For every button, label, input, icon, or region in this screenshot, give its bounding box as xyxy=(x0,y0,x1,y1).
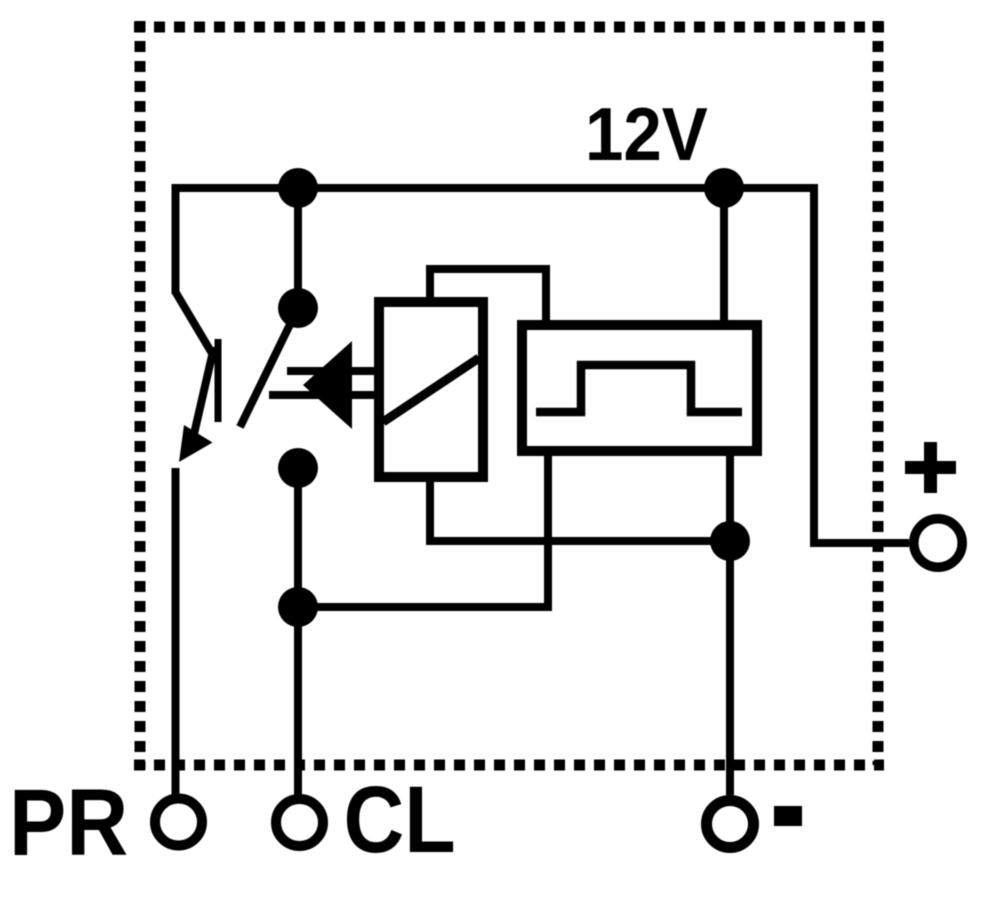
svg-text:PR: PR xyxy=(9,770,128,876)
svg-text:CL: CL xyxy=(344,767,456,873)
svg-text:12V: 12V xyxy=(585,93,708,176)
